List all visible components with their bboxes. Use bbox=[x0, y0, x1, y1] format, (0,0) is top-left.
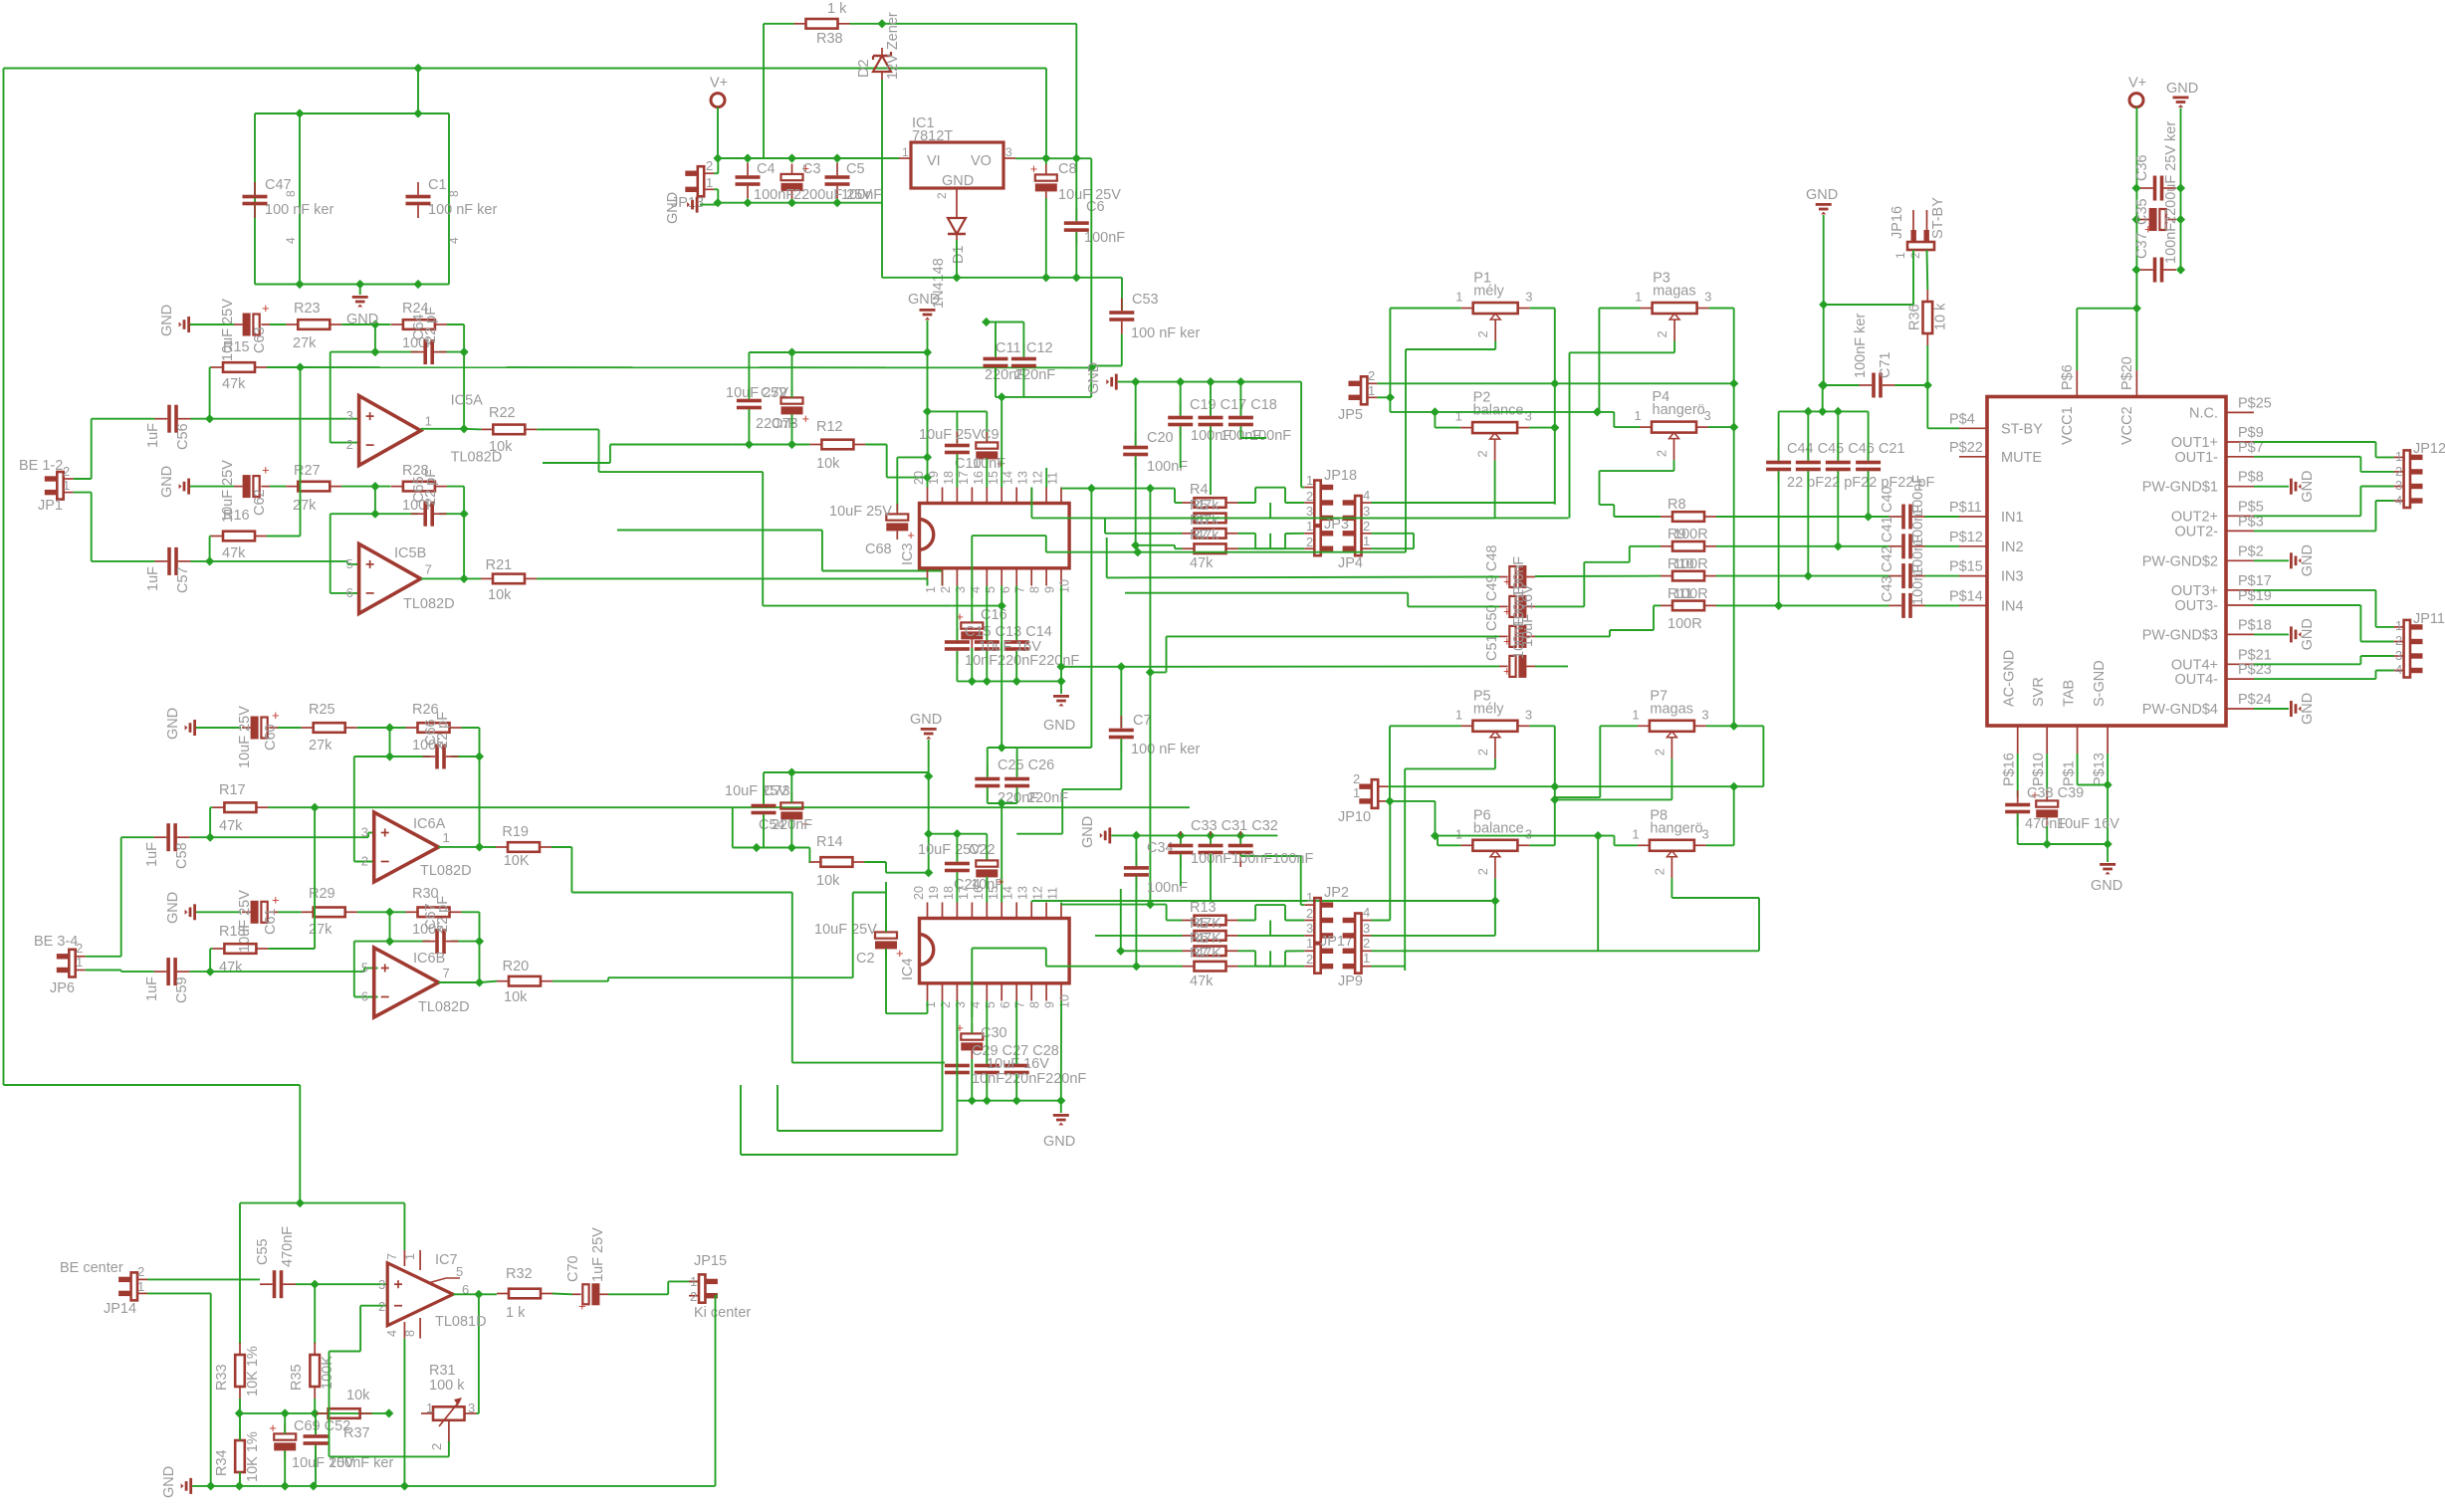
label R10 100R bbox=[1667, 556, 1694, 572]
wire bias rail lower bbox=[315, 806, 1190, 808]
wire minus col 6a bbox=[354, 756, 374, 862]
wire r33 col bbox=[239, 1203, 241, 1344]
svg-text:8: 8 bbox=[1028, 1001, 1042, 1008]
label 22 pF bbox=[435, 712, 451, 749]
wire c72 pins bbox=[748, 352, 750, 445]
label C23 bbox=[969, 842, 996, 858]
wire out4- bbox=[2254, 671, 2394, 680]
junction bbox=[953, 829, 962, 838]
capacitor C40 100nF bbox=[1889, 505, 1925, 530]
connector JP1 bbox=[38, 464, 74, 514]
junction bbox=[296, 1198, 305, 1207]
wire VO column bbox=[1090, 158, 1092, 367]
label 10uF 16V bbox=[1520, 584, 1536, 647]
junction bbox=[1550, 423, 1559, 432]
junction bbox=[370, 347, 379, 356]
svg-text:2: 2 bbox=[1306, 906, 1313, 921]
label 10uF 25V bbox=[814, 922, 877, 938]
svg-text:2: 2 bbox=[1306, 952, 1313, 967]
label C72 bbox=[761, 385, 787, 401]
wire c29 rail bbox=[957, 1059, 1060, 1101]
junction bbox=[384, 1408, 393, 1417]
junction bbox=[206, 833, 215, 842]
svg-text:C9: C9 bbox=[981, 427, 1000, 443]
svg-text:10k: 10k bbox=[504, 989, 528, 1005]
label C3 bbox=[802, 161, 821, 177]
pin 4 bbox=[284, 237, 298, 244]
junction bbox=[1490, 896, 1499, 905]
svg-text:100nF: 100nF bbox=[1147, 459, 1188, 475]
wire r32-c70 bbox=[553, 1293, 572, 1296]
label GND bbox=[2300, 544, 2316, 576]
label 2200uF 25V bbox=[2163, 121, 2179, 224]
wire c2 pins bbox=[886, 882, 928, 1013]
pin SVR bbox=[2031, 677, 2047, 786]
label 10nF220nF220nF bbox=[965, 653, 1079, 669]
wire r33-r35 mid bbox=[240, 1399, 315, 1413]
svg-text:47k: 47k bbox=[1190, 555, 1214, 571]
resistor R32 1k bbox=[497, 1289, 553, 1299]
junction bbox=[1729, 423, 1738, 432]
svg-text:27k: 27k bbox=[309, 922, 333, 938]
wire r15 left bbox=[210, 367, 211, 419]
wire jp9 p4 bbox=[1372, 801, 1391, 921]
potentiometer P6 bbox=[1455, 807, 1532, 878]
svg-text:P$21: P$21 bbox=[2238, 647, 2272, 663]
wire r16 left bbox=[210, 537, 211, 561]
wire gnd-c62 bbox=[190, 486, 234, 488]
junction bbox=[787, 440, 796, 449]
svg-text:OUT2-: OUT2- bbox=[2175, 524, 2219, 540]
label 100k bbox=[412, 922, 444, 938]
wire minus col 6b bbox=[354, 942, 378, 997]
wire gnd rail lower bbox=[1111, 834, 1277, 836]
label R14 bbox=[816, 834, 843, 850]
capacitor C64 bbox=[411, 339, 447, 364]
wire C8 top bbox=[1045, 158, 1047, 164]
junction bbox=[355, 280, 364, 289]
svg-text:JP4: JP4 bbox=[1338, 555, 1363, 571]
label C40 bbox=[1880, 486, 1895, 513]
label 100nF r2 bbox=[1511, 586, 1527, 627]
junction bbox=[370, 482, 379, 491]
label R12 bbox=[816, 419, 843, 435]
svg-text:10uF 16V: 10uF 16V bbox=[987, 1056, 1049, 1072]
svg-text:IC6B: IC6B bbox=[413, 951, 445, 967]
svg-text:P$10: P$10 bbox=[2031, 753, 2047, 786]
label 100nF bbox=[1910, 564, 1926, 605]
resistor R9 100R bbox=[1661, 541, 1716, 551]
label R25 bbox=[309, 702, 335, 718]
resistor R15 47k bbox=[1183, 947, 1238, 957]
wire c62-r27 bbox=[270, 486, 286, 488]
pin AC-GND bbox=[2002, 650, 2018, 786]
junction bbox=[413, 280, 422, 289]
wire jp10p1 path bbox=[1390, 801, 1436, 836]
label C73 bbox=[764, 783, 790, 799]
wire p3p7 vert bbox=[1733, 383, 1735, 725]
wire R38 left bbox=[764, 24, 794, 158]
svg-text:R16: R16 bbox=[223, 508, 250, 524]
wire p5 pin3 bbox=[1529, 726, 1554, 845]
svg-text:100nF100nF100nF: 100nF100nF100nF bbox=[1191, 851, 1313, 867]
svg-text:1: 1 bbox=[1306, 936, 1313, 951]
wire c33 bots bbox=[1181, 854, 1240, 901]
resistor R14 47k bbox=[1183, 931, 1238, 941]
junction bbox=[1146, 484, 1155, 493]
wire c7 bottom bbox=[1016, 739, 1121, 833]
junction bbox=[832, 198, 841, 207]
svg-text:IC5B: IC5B bbox=[394, 545, 426, 561]
junction bbox=[1385, 796, 1394, 805]
IC IC4 bbox=[900, 886, 1072, 1008]
svg-text:2: 2 bbox=[939, 586, 953, 593]
label 100nF ker bbox=[1853, 314, 1869, 378]
svg-text:GND: GND bbox=[1086, 362, 1102, 394]
svg-text:VCC2: VCC2 bbox=[2119, 406, 2135, 445]
svg-text:10: 10 bbox=[1058, 579, 1072, 593]
label C58 bbox=[174, 842, 190, 869]
wire r15 right bbox=[267, 366, 301, 368]
capacitor C43 100nF bbox=[1889, 593, 1925, 618]
svg-text:1: 1 bbox=[63, 478, 70, 493]
potentiometer P8 bbox=[1632, 807, 1708, 878]
svg-text:2: 2 bbox=[2395, 464, 2402, 479]
wire c63-r23 bbox=[270, 324, 286, 325]
wire xover34 bbox=[1269, 534, 1271, 548]
wire v+ col bbox=[2136, 108, 2180, 370]
wire p2 pin3 bbox=[1529, 427, 1555, 429]
wire rowD b bbox=[1095, 935, 1183, 937]
label 100nF x3 bbox=[1191, 851, 1313, 867]
label C12 bbox=[1026, 340, 1053, 356]
junction bbox=[752, 843, 761, 852]
pin OUT2- bbox=[2175, 514, 2264, 540]
label 100nF bbox=[1221, 428, 1261, 444]
wire out2+ bbox=[2254, 487, 2394, 517]
capacitor C44 bbox=[1766, 448, 1791, 484]
svg-text:100nF: 100nF bbox=[2163, 223, 2179, 264]
resistor R17 47k bbox=[212, 802, 268, 812]
label 220nF bbox=[1027, 790, 1068, 806]
svg-text:P$20: P$20 bbox=[2119, 356, 2135, 390]
svg-text:3: 3 bbox=[1525, 409, 1532, 424]
wire row2 bbox=[1238, 517, 1305, 519]
wire c10 bottom bbox=[957, 454, 987, 487]
svg-text:P$16: P$16 bbox=[2002, 753, 2018, 786]
capacitor C72 bbox=[737, 386, 762, 422]
capacitor C6 bbox=[1064, 209, 1089, 245]
wire jp9 p3 bbox=[1372, 935, 1495, 937]
wire pwgnd bbox=[2254, 633, 2289, 635]
resistor R36 bbox=[1906, 290, 1948, 345]
svg-text:7812T: 7812T bbox=[912, 128, 953, 144]
label R18 bbox=[219, 924, 246, 940]
svg-text:MUTE: MUTE bbox=[2001, 450, 2042, 466]
junction bbox=[1087, 484, 1096, 493]
wire xover12 bbox=[1269, 503, 1271, 518]
svg-text:C66: C66 bbox=[423, 719, 439, 746]
svg-text:18: 18 bbox=[942, 471, 956, 485]
label C9 bbox=[981, 427, 1000, 443]
wire p8 pin3 bbox=[1706, 786, 1734, 845]
connector JP5 bbox=[1338, 368, 1377, 423]
label BE 3-4 bbox=[34, 934, 78, 950]
wire gnd stack bbox=[927, 321, 929, 352]
svg-text:8: 8 bbox=[1028, 586, 1042, 593]
svg-text:6: 6 bbox=[999, 1001, 1012, 1008]
ground bbox=[920, 309, 936, 320]
junction bbox=[1834, 541, 1843, 550]
label 220nF bbox=[756, 416, 796, 432]
svg-text:7: 7 bbox=[1013, 586, 1027, 593]
svg-text:P$15: P$15 bbox=[1949, 559, 1983, 575]
label GND bbox=[2300, 693, 2316, 725]
svg-text:C65: C65 bbox=[411, 476, 427, 503]
label 100nF bbox=[1191, 428, 1231, 444]
svg-text:C53: C53 bbox=[1132, 292, 1159, 308]
label 47k ovl bbox=[1196, 916, 1222, 932]
svg-text:R35: R35 bbox=[289, 1364, 305, 1391]
wire top rail bbox=[4, 69, 1047, 159]
svg-text:4: 4 bbox=[447, 237, 461, 244]
svg-text:10 k: 10 k bbox=[1932, 303, 1948, 330]
wire row4 b bbox=[1238, 966, 1305, 968]
svg-text:220nF: 220nF bbox=[1014, 367, 1055, 383]
svg-text:C72: C72 bbox=[761, 385, 787, 401]
pin IN1 bbox=[1949, 500, 2024, 526]
svg-text:ST-BY: ST-BY bbox=[1930, 197, 1946, 239]
polarized capacitor C60 bbox=[242, 708, 280, 740]
polarized capacitor C16 bbox=[956, 609, 983, 648]
wire c48 left bbox=[1107, 538, 1499, 577]
svg-text:P$12: P$12 bbox=[1949, 530, 1983, 545]
label C65 bbox=[411, 476, 427, 503]
wire c67 rail bbox=[354, 912, 480, 941]
svg-text:IN3: IN3 bbox=[2001, 569, 2024, 585]
pin S-GND bbox=[2092, 660, 2108, 786]
wire p7 wiper bbox=[1555, 758, 1672, 799]
capacitor C65 bbox=[411, 502, 447, 527]
ground bbox=[921, 728, 937, 739]
svg-text:5: 5 bbox=[984, 1001, 998, 1008]
svg-text:10uF 25V: 10uF 25V bbox=[829, 504, 892, 520]
junction bbox=[1133, 547, 1142, 556]
label C63 bbox=[252, 326, 268, 353]
svg-text:JP14: JP14 bbox=[104, 1301, 136, 1317]
wire p7 pin1 bbox=[1553, 726, 1638, 797]
svg-text:16: 16 bbox=[972, 471, 986, 485]
polarized capacitor C23 bbox=[976, 850, 1004, 889]
wire c20 pins bbox=[1135, 382, 1137, 545]
wire r35 col bbox=[314, 1284, 316, 1344]
resistor R8 100R bbox=[1661, 512, 1716, 522]
wire in row bbox=[1716, 516, 1959, 518]
wire p8 wiper bbox=[1671, 878, 1759, 951]
wire bias-c11 link bbox=[1090, 367, 1092, 397]
capacitor C36 bbox=[2140, 176, 2176, 201]
wire R36 bbox=[1926, 250, 1929, 385]
resistor R16 47k bbox=[211, 532, 267, 541]
svg-text:1 k: 1 k bbox=[827, 1, 847, 17]
wire ic7 pwr bbox=[403, 1203, 405, 1486]
svg-text:2: 2 bbox=[1908, 252, 1922, 259]
svg-text:27k: 27k bbox=[309, 738, 333, 754]
svg-text:27k: 27k bbox=[293, 498, 317, 514]
svg-text:C58: C58 bbox=[174, 842, 190, 869]
svg-text:8: 8 bbox=[403, 1330, 417, 1337]
label C4 value bbox=[754, 187, 794, 203]
svg-text:C71: C71 bbox=[1878, 351, 1893, 378]
junction bbox=[983, 677, 992, 686]
capacitor C13 bbox=[975, 628, 1000, 664]
wire mid rail bbox=[239, 1412, 388, 1414]
label C2 bbox=[856, 951, 875, 967]
svg-text:JP5: JP5 bbox=[1338, 407, 1363, 423]
capacitor C66 bbox=[423, 745, 459, 769]
wire c11 rail bbox=[987, 322, 1024, 324]
svg-text:GND: GND bbox=[2300, 618, 2316, 650]
resistor R33 10K bbox=[235, 1343, 245, 1399]
IC power amplifier bbox=[1987, 397, 2226, 727]
svg-text:4: 4 bbox=[1363, 905, 1370, 920]
ground bbox=[2290, 479, 2301, 495]
svg-text:10: 10 bbox=[1058, 994, 1072, 1008]
pin PW-GND$3 bbox=[2142, 617, 2272, 643]
wire c55-plus bbox=[296, 1283, 387, 1285]
svg-text:R4: R4 bbox=[1190, 482, 1209, 498]
label 1k bbox=[827, 1, 847, 17]
svg-text:4: 4 bbox=[969, 586, 983, 593]
label BE center bbox=[60, 1260, 123, 1276]
svg-text:C33 C31 C32: C33 C31 C32 bbox=[1191, 818, 1278, 834]
label 10uF 16V bbox=[987, 1056, 1049, 1072]
wire gnd col bbox=[1823, 215, 1825, 385]
junction bbox=[2043, 839, 2052, 848]
connector JP2 bbox=[1304, 885, 1349, 943]
svg-text:V+: V+ bbox=[710, 76, 728, 92]
wire jp5p1 rail bbox=[1390, 397, 1614, 412]
svg-text:20: 20 bbox=[912, 886, 926, 900]
junction bbox=[1072, 153, 1081, 162]
svg-text:GND: GND bbox=[1806, 187, 1838, 203]
label C70 bbox=[565, 1255, 581, 1282]
junction bbox=[832, 153, 841, 162]
svg-text:2: 2 bbox=[63, 464, 70, 479]
svg-text:100 nF ker: 100 nF ker bbox=[1131, 742, 1200, 757]
junction bbox=[1236, 831, 1245, 840]
svg-text:P$9: P$9 bbox=[2238, 425, 2264, 441]
label R8 bbox=[1667, 497, 1686, 513]
capacitor C55 bbox=[260, 1270, 296, 1298]
wire c1314 rail bbox=[957, 648, 1061, 681]
wire bottom gnd rail bbox=[882, 278, 1122, 311]
junction bbox=[205, 414, 214, 423]
junction bbox=[1131, 377, 1140, 386]
wire c25 drop bbox=[1000, 803, 1002, 903]
svg-text:GND: GND bbox=[346, 312, 378, 327]
wire jp14 p2 bbox=[147, 1278, 260, 1280]
label GND bbox=[2300, 470, 2316, 502]
label C41 bbox=[1880, 516, 1895, 542]
svg-text:VI: VI bbox=[927, 153, 941, 169]
label R33 bbox=[214, 1364, 230, 1391]
junction bbox=[1012, 677, 1021, 686]
wire p4 pin1 leg bbox=[1614, 412, 1640, 427]
svg-text:2: 2 bbox=[1306, 535, 1313, 549]
label 1uF bbox=[145, 566, 161, 591]
label GND bbox=[1080, 816, 1096, 848]
label C24 bbox=[954, 877, 981, 893]
resistor R27 27k bbox=[286, 482, 341, 492]
svg-text:1: 1 bbox=[1368, 383, 1375, 398]
wire mid 532 bbox=[617, 531, 943, 586]
svg-text:GND: GND bbox=[2166, 81, 2198, 97]
resistor R7 47k bbox=[1183, 543, 1238, 553]
wire out bbox=[421, 428, 465, 430]
wire ic4 p2 stair bbox=[778, 1001, 943, 1132]
svg-text:7: 7 bbox=[425, 561, 432, 576]
wire r14 right bbox=[864, 862, 928, 873]
label R30 bbox=[412, 886, 439, 902]
svg-text:OUT1+: OUT1+ bbox=[2171, 435, 2218, 451]
junction bbox=[1550, 379, 1559, 388]
junction bbox=[206, 1481, 215, 1490]
wire jp1 pin1 bbox=[74, 493, 155, 561]
label GND bbox=[161, 1466, 177, 1498]
capacitor C10 bbox=[945, 431, 970, 467]
wire r19 route bbox=[552, 847, 945, 1063]
label C68 bbox=[865, 541, 892, 557]
capacitor C74 bbox=[752, 791, 777, 827]
wire row1 hop bbox=[1238, 488, 1305, 503]
label 22pf row bbox=[1787, 475, 1934, 491]
label 27k bbox=[309, 738, 333, 754]
junction bbox=[1386, 393, 1395, 402]
ground bbox=[1100, 827, 1111, 843]
junction bbox=[923, 407, 932, 416]
polarized capacitor C75 bbox=[780, 792, 809, 831]
svg-text:GND: GND bbox=[2091, 878, 2122, 894]
wire r9 stair bbox=[1535, 546, 1661, 607]
svg-text:C40: C40 bbox=[1880, 486, 1895, 513]
svg-text:+: + bbox=[272, 892, 280, 907]
resistor R34 10K bbox=[235, 1428, 245, 1484]
junction bbox=[924, 829, 933, 838]
svg-text:19: 19 bbox=[927, 886, 941, 900]
svg-text:100nF: 100nF bbox=[1511, 618, 1527, 659]
label 100nF bbox=[1910, 535, 1926, 575]
junction bbox=[2176, 183, 2185, 192]
svg-text:3: 3 bbox=[2395, 478, 2402, 493]
ground bbox=[185, 720, 196, 736]
label C33 C31 C32 bbox=[1191, 818, 1278, 834]
svg-text:1: 1 bbox=[1455, 826, 1462, 841]
wire pin11 row bbox=[1061, 489, 1182, 503]
wire jp9 p2 long bbox=[1372, 950, 1760, 952]
wire jp6 pin1 bbox=[86, 971, 154, 972]
label GND bbox=[2300, 618, 2316, 650]
wire out1- bbox=[2254, 457, 2394, 472]
label C60 bbox=[263, 724, 279, 751]
wire c11 mid drop bbox=[1000, 397, 1002, 488]
label C35 bbox=[2134, 198, 2150, 225]
junction bbox=[1431, 407, 1440, 416]
svg-text:100 nF ker: 100 nF ker bbox=[428, 202, 497, 218]
resistor R35 100K bbox=[310, 1343, 320, 1399]
svg-text:C22: C22 bbox=[969, 842, 996, 858]
wire c70-jp15 bbox=[608, 1281, 699, 1294]
